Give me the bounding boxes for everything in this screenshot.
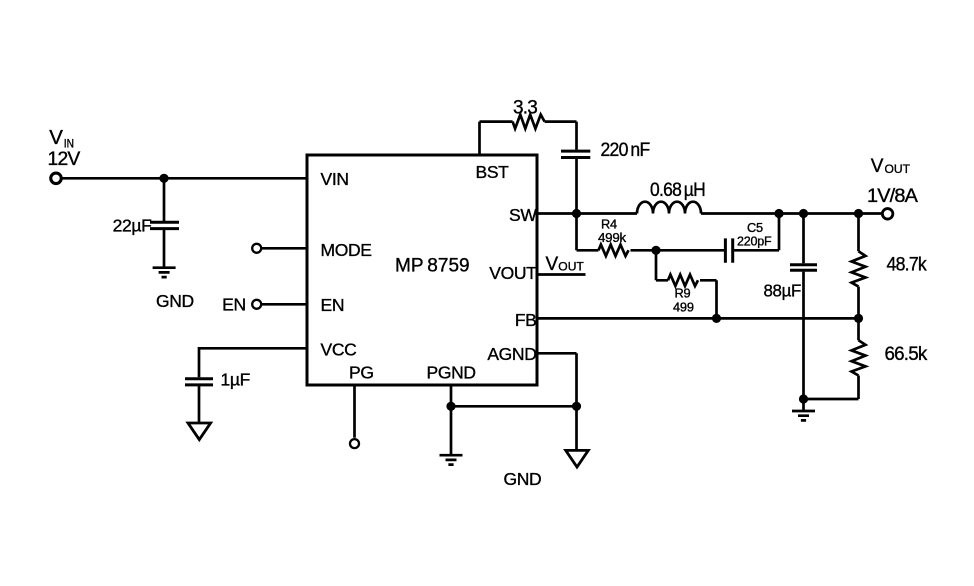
svg-text:EN: EN — [222, 294, 246, 314]
svg-text:VIN: VIN — [321, 169, 349, 189]
svg-text:220pF: 220pF — [737, 234, 772, 249]
svg-text:1µF: 1µF — [221, 370, 250, 390]
svg-text:AGND: AGND — [487, 344, 536, 364]
svg-text:VOUT: VOUT — [489, 263, 537, 283]
svg-text:499k: 499k — [598, 230, 627, 245]
svg-text:GND: GND — [156, 291, 194, 311]
svg-text:22µF: 22µF — [113, 216, 152, 236]
svg-text:0.68 µH: 0.68 µH — [650, 180, 705, 201]
svg-text:BST: BST — [476, 162, 510, 182]
svg-text:VCC: VCC — [321, 339, 357, 359]
svg-text:EN: EN — [321, 295, 345, 315]
svg-text:499: 499 — [673, 300, 694, 315]
svg-text:GND: GND — [504, 469, 542, 489]
svg-text:FB: FB — [515, 310, 537, 330]
svg-text:220 nF: 220 nF — [601, 140, 650, 161]
svg-text:1V/8A: 1V/8A — [867, 186, 918, 207]
svg-text:OUT: OUT — [885, 162, 911, 176]
svg-text:88µF: 88µF — [764, 281, 802, 301]
svg-text:R9: R9 — [675, 286, 691, 301]
svg-text:66.5k: 66.5k — [885, 344, 928, 365]
svg-text:MP 8759: MP 8759 — [395, 256, 470, 277]
svg-text:OUT: OUT — [558, 260, 584, 274]
svg-text:MODE: MODE — [321, 240, 372, 260]
svg-text:V: V — [546, 254, 559, 275]
svg-text:V: V — [49, 126, 63, 149]
svg-text:PG: PG — [349, 363, 374, 383]
svg-text:V: V — [871, 156, 884, 177]
svg-text:SW: SW — [509, 205, 537, 225]
svg-text:3.3: 3.3 — [513, 97, 537, 118]
svg-text:12V: 12V — [48, 149, 81, 170]
svg-text:48.7k: 48.7k — [887, 254, 928, 275]
svg-text:PGND: PGND — [427, 363, 476, 383]
